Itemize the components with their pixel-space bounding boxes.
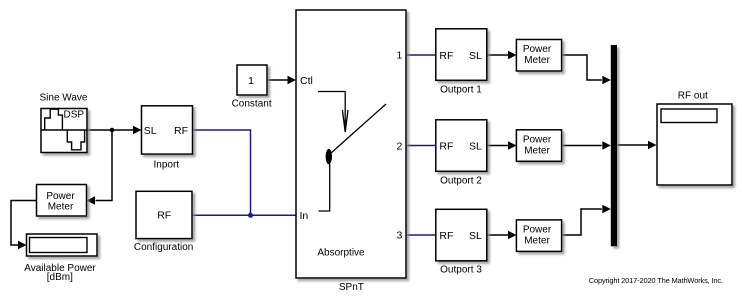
svg-text:RF: RF [439,140,453,152]
svg-text:RF: RF [439,50,453,62]
svg-text:Inport: Inport [154,160,180,171]
svg-text:RF out: RF out [678,91,708,102]
svg-text:[dBm]: [dBm] [47,272,73,283]
svg-text:Absorptive: Absorptive [317,248,365,259]
svg-text:Meter: Meter [524,55,550,66]
svg-text:Copyright 2017-2020 The MathWo: Copyright 2017-2020 The MathWorks, Inc. [589,276,723,285]
svg-text:Outport 2: Outport 2 [440,176,482,187]
svg-text:2: 2 [396,141,402,153]
svg-text:SPnT: SPnT [339,282,364,293]
svg-text:RF: RF [157,210,171,222]
svg-text:SL: SL [469,50,482,62]
svg-text:Outport 3: Outport 3 [440,265,482,276]
svg-text:Meter: Meter [524,146,550,157]
svg-text:Meter: Meter [524,236,550,247]
svg-text:Outport 1: Outport 1 [440,85,482,96]
svg-text:RF: RF [439,230,453,242]
svg-text:Power: Power [46,191,75,202]
svg-text:Power: Power [523,225,552,236]
svg-text:RF: RF [174,125,188,137]
svg-text:1: 1 [396,50,402,62]
svg-text:Ctl: Ctl [300,75,313,87]
svg-text:Power: Power [523,135,552,146]
svg-text:Meter: Meter [48,201,74,212]
svg-text:Power: Power [523,44,552,55]
svg-text:1: 1 [248,75,254,87]
svg-text:Constant: Constant [232,99,272,110]
svg-text:3: 3 [396,229,402,241]
svg-text:SL: SL [469,140,482,152]
svg-text:Sine Wave: Sine Wave [40,93,88,104]
svg-text:SL: SL [469,230,482,242]
svg-text:In: In [300,210,309,222]
svg-text:Configuration: Configuration [134,242,193,253]
svg-text:SL: SL [144,125,157,137]
svg-text:DSP: DSP [64,109,85,120]
